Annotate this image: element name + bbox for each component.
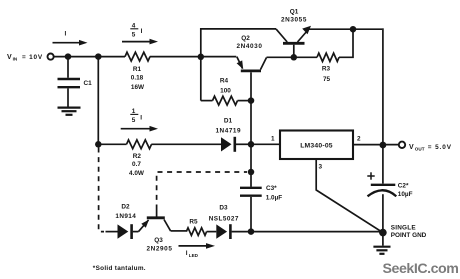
wire Q2 collector to Q1 base node [267, 56, 295, 58]
wire dashed Q3 base to C3 node [157, 172, 247, 210]
current arrow I [53, 40, 88, 46]
wire top rail emitter to right corner [308, 28, 383, 30]
node C3 bottom junction [248, 228, 255, 235]
node C3 top dashed junction [248, 169, 255, 176]
node R2 branch junction [95, 53, 102, 60]
op-amp U1 LM340-05 regulator box [280, 131, 353, 160]
svg-text:2N3055: 2N3055 [281, 17, 307, 24]
label I_LED [186, 250, 199, 258]
svg-text:D1: D1 [224, 117, 233, 124]
svg-text:I: I [186, 250, 188, 257]
transistor Q1 [276, 26, 311, 55]
svg-text:5: 5 [132, 31, 136, 38]
capacitor C1 [58, 58, 81, 107]
svg-text:OUT: OUT [415, 146, 425, 151]
capacitor C2 [368, 185, 397, 231]
label 4/5 I fraction [130, 22, 142, 38]
svg-text:V: V [7, 54, 12, 61]
capacitor C2 polarity + [367, 172, 374, 179]
svg-text:C1: C1 [84, 80, 93, 87]
node main 4-way junction [198, 54, 205, 61]
diode D2 [106, 224, 139, 239]
label Q1 2N3055 [281, 8, 307, 23]
wire junction up to top rail [201, 29, 276, 58]
svg-text:R4: R4 [220, 77, 229, 84]
current arrow 4/5 I [122, 39, 158, 45]
svg-text:1N914: 1N914 [115, 213, 136, 220]
svg-text:NSL5027: NSL5027 [209, 216, 239, 223]
svg-text:3: 3 [319, 164, 323, 171]
wire R2 branch vertical [97, 57, 99, 145]
svg-text:10µF: 10µF [398, 191, 413, 198]
label 1/5 I fraction [130, 108, 142, 124]
capacitor C3 [240, 188, 262, 232]
wire input rail right of R1 [150, 56, 201, 58]
svg-text:5: 5 [132, 117, 136, 124]
wire to regulator pin 1 [251, 143, 280, 145]
svg-text:Q3: Q3 [154, 237, 163, 244]
svg-text:C2*: C2* [398, 183, 409, 190]
label VOUT = 5.0V [409, 144, 452, 152]
svg-text:Q1: Q1 [290, 8, 299, 15]
wire output node down to C2 [382, 145, 384, 184]
svg-text:SINGLE: SINGLE [391, 225, 417, 232]
wire middle rail R2 to D1 [151, 143, 221, 145]
diode D3 LED [216, 224, 248, 239]
svg-text:I: I [141, 28, 143, 35]
svg-text:POINT GND: POINT GND [391, 232, 427, 239]
svg-text:D3: D3 [219, 204, 228, 211]
label VIN = 10V [7, 54, 43, 62]
ground (single point) [373, 233, 390, 254]
svg-text:100: 100 [220, 88, 231, 95]
ground (C1) [58, 108, 81, 115]
wire input rail left [54, 56, 125, 58]
current arrow I_LED [179, 243, 216, 249]
svg-text:D2: D2 [121, 203, 130, 210]
svg-text:Q2: Q2 [241, 35, 250, 42]
svg-text:R1: R1 [133, 66, 142, 73]
svg-text:I: I [65, 31, 67, 38]
svg-text:R3: R3 [322, 66, 331, 73]
label D1 1N4719 [215, 117, 241, 134]
svg-text:1N4719: 1N4719 [215, 128, 241, 135]
svg-text:*Solid tantalum.: *Solid tantalum. [93, 265, 146, 272]
label D3 NSL5027 [209, 204, 239, 222]
wire right vertical rail [382, 28, 384, 145]
resistor R1 [125, 52, 150, 61]
svg-text:4.0W: 4.0W [129, 170, 145, 177]
svg-text:I: I [140, 115, 142, 122]
node single point ground junction [379, 229, 387, 237]
resistor R5 [186, 228, 216, 236]
svg-text:LM340-05: LM340-05 [300, 143, 333, 150]
svg-text:V: V [409, 144, 414, 151]
transistor Q2 [201, 57, 267, 100]
label Q3 2N2905 [147, 237, 173, 253]
wire middle rail to R2 [98, 143, 126, 145]
resistor R3 [294, 29, 353, 61]
label C2* 10uF [398, 183, 413, 198]
svg-text:R2: R2 [133, 153, 142, 160]
diode D1 [221, 137, 248, 152]
node middle rail left junction [95, 141, 102, 148]
svg-text:0.18: 0.18 [131, 75, 144, 82]
resistor R2 [127, 140, 152, 149]
current arrow 1/5 I [121, 126, 158, 132]
svg-text:SeekIC.com: SeekIC.com [383, 261, 459, 277]
svg-text:IN: IN [13, 57, 18, 62]
svg-text:1.0µF: 1.0µF [266, 195, 283, 202]
pin 2 wire to output node [353, 144, 399, 146]
node VIN input terminal [48, 54, 54, 60]
label R3 75 [322, 66, 331, 83]
resistor R4 [201, 96, 251, 105]
node C1 tap junction [65, 53, 72, 60]
svg-text:C3*: C3* [266, 185, 277, 192]
node output junction [380, 142, 387, 149]
node D1 output junction [248, 141, 255, 148]
label R4 100 [220, 77, 231, 94]
svg-text:2N2905: 2N2905 [147, 246, 173, 253]
svg-text:16W: 16W [131, 84, 145, 91]
label SINGLE POINT GND [391, 225, 427, 239]
svg-text:75: 75 [323, 76, 331, 83]
transistor Q3 [139, 210, 187, 232]
svg-text:R5: R5 [189, 218, 198, 225]
svg-text:LED: LED [189, 253, 199, 258]
node R3 top junction [350, 26, 357, 33]
svg-text:= 10V: = 10V [22, 54, 43, 61]
label R1 0.18 16W [131, 66, 145, 91]
label Q2 2N4030 [237, 35, 263, 50]
node R4 / Q2 base junction [248, 97, 255, 104]
svg-text:0.7: 0.7 [132, 161, 141, 168]
wire center vertical Q2 base to D1 node [250, 101, 252, 145]
wire dashed R2 node down left rail [99, 148, 104, 232]
wire junction down to R4 [200, 57, 202, 101]
svg-text:1: 1 [271, 135, 275, 142]
label C3* 1.0uF [266, 185, 283, 201]
wire pin 3 to single point ground [316, 160, 383, 233]
wire center vertical to C3 [250, 144, 252, 187]
wire bottom rail [251, 231, 383, 233]
label R2 0.7 4.0W [129, 153, 145, 177]
svg-text:2N4030: 2N4030 [237, 43, 263, 50]
label D2 1N914 [115, 203, 136, 220]
svg-text:= 5.0V: = 5.0V [428, 144, 452, 151]
svg-text:2: 2 [357, 136, 361, 143]
node Q1 base junction [291, 54, 298, 61]
node VOUT terminal [399, 142, 405, 148]
